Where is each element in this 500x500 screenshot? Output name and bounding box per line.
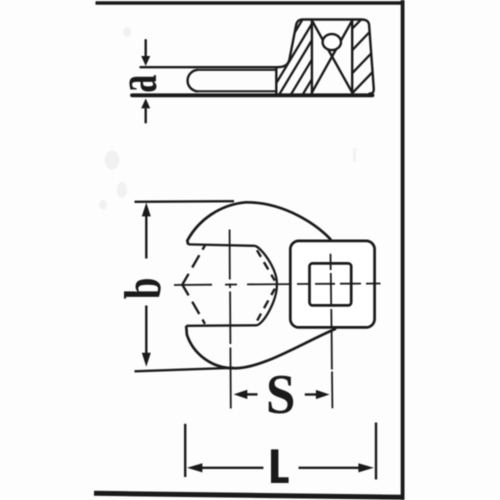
svg-text:S: S — [266, 363, 296, 426]
svg-text:b: b — [113, 278, 171, 300]
svg-text:a: a — [107, 75, 169, 93]
